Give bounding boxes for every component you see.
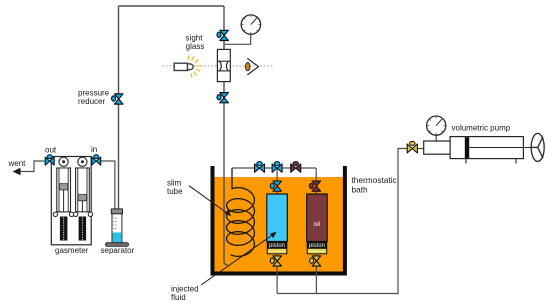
valve pressure reducer	[112, 94, 123, 104]
valve cyan-cylinder top	[270, 181, 281, 191]
gasmeter right tube	[76, 168, 90, 212]
wire left riser (to pressure reducer and separator)	[118, 6, 120, 216]
svg-text:oil: oil	[314, 221, 321, 228]
valve gasmeter out	[45, 155, 54, 165]
svg-text:glass: glass	[186, 42, 205, 51]
oil cylinder (maroon)	[307, 194, 328, 254]
wire went outlet	[16, 161, 45, 172]
lamp rays	[188, 56, 201, 78]
svg-text:out: out	[45, 146, 57, 155]
svg-text:thermostatic: thermostatic	[352, 175, 397, 185]
valve oil-cylinder top (maroon)	[309, 181, 320, 191]
wire cyan-cylinder bottom line	[276, 253, 278, 294]
wire top header	[119, 5, 225, 7]
pressure gauge PG2 (pump)	[427, 116, 446, 142]
wire gasmeter-in branch	[100, 161, 115, 216]
svg-text:volumetric pump: volumetric pump	[452, 124, 511, 133]
volumetric pump body	[424, 137, 532, 164]
manifold valve C (maroon)	[291, 162, 301, 173]
wire oil-cylinder top stem	[315, 168, 317, 194]
gasmeter right inlet circle	[78, 157, 87, 166]
manifold valve A (cyan)	[255, 162, 265, 173]
svg-text:fluid: fluid	[171, 293, 186, 302]
thermostatic bath walls	[211, 166, 347, 276]
gasmeter pivot circles	[53, 212, 92, 216]
gasmeter left burette	[60, 217, 68, 241]
svg-text:gasmeter: gasmeter	[55, 246, 89, 255]
wire pump valve to pump	[417, 148, 423, 150]
gasmeter right burette	[79, 217, 87, 241]
valve V2 (below sight glass)	[217, 93, 228, 103]
wire cyan-cylinder top stem	[276, 168, 278, 194]
gasmeter left inlet circle	[59, 157, 68, 166]
valve pump inlet (yellow)	[407, 141, 417, 153]
thermostatic bath (orange liquid)	[213, 177, 345, 272]
svg-text:tube: tube	[167, 187, 183, 196]
svg-text:in: in	[91, 145, 97, 154]
arrow injected fluid pointer	[201, 232, 277, 285]
node sight-line (dotted optical axis)	[163, 65, 275, 67]
wire middle riser (sight glass to coil)	[224, 6, 228, 265]
pressure gauge PG1	[241, 15, 260, 34]
gasmeter left tube	[57, 168, 71, 212]
gasmeter box	[51, 157, 91, 245]
arrow slim tube pointer	[189, 186, 231, 217]
lamp (sight glass illuminator)	[174, 63, 193, 70]
injected fluid cylinder (cyan)	[267, 194, 288, 254]
pump handwheel	[531, 133, 544, 161]
wire manifold header	[232, 167, 316, 169]
sight glass body	[217, 49, 230, 81]
valve V1 (above sight glass)	[217, 30, 228, 40]
svg-text:bath: bath	[352, 185, 369, 195]
valve gasmeter in	[92, 155, 101, 165]
wire oil-cylinder bottom line	[315, 253, 317, 294]
slim tube coil	[227, 168, 255, 256]
svg-text:went: went	[8, 159, 27, 168]
separator vessel	[106, 209, 129, 246]
eye (observer)	[245, 58, 258, 75]
valve cyan-cylinder bottom (yellow)	[270, 256, 281, 266]
svg-text:reducer: reducer	[78, 97, 105, 106]
svg-text:separator: separator	[101, 246, 135, 255]
wire gauge-1 connection	[224, 35, 251, 45]
went arrowhead	[13, 168, 21, 175]
valve oil-cylinder bottom (yellow)	[310, 256, 321, 266]
wire pump suction line	[277, 149, 407, 294]
manifold valve B (cyan)	[272, 162, 282, 173]
